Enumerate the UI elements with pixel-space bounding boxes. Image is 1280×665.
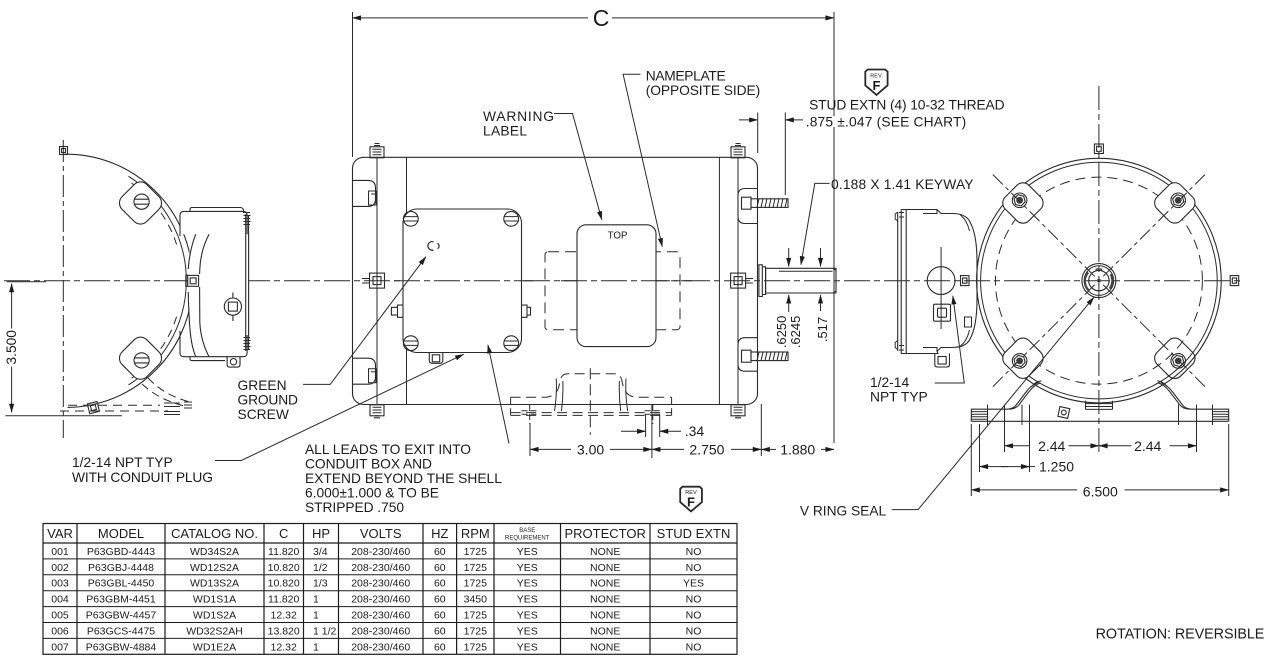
right view left rim clip [961, 276, 970, 286]
leader warning label [554, 114, 602, 220]
svg-text:WD12S2A: WD12S2A [190, 562, 239, 574]
conduit box screw BR [504, 336, 519, 351]
dim C right extension [833, 12, 835, 443]
svg-text:WITH CONDUIT PLUG: WITH CONDUIT PLUG [72, 470, 213, 485]
svg-text:NONE: NONE [590, 641, 620, 653]
svg-text:.875 ±.047 (SEE CHART): .875 ±.047 (SEE CHART) [806, 115, 967, 130]
left view bottom tab [227, 357, 240, 367]
left view top clip square [60, 147, 68, 155]
right view base slot ticks [988, 405, 1213, 426]
left view conduit box top lip [190, 208, 244, 214]
svg-text:ROTATION: REVERSIBLE: ROTATION: REVERSIBLE [1096, 627, 1265, 643]
right view base left serrations [971, 412, 987, 420]
bottom-left through bolt [370, 405, 384, 416]
svg-text:NO: NO [686, 641, 702, 653]
svg-text:ALL LEADS TO EXIT INTO: ALL LEADS TO EXIT INTO [305, 442, 471, 457]
svg-text:208-230/460: 208-230/460 [351, 641, 410, 653]
dim .34 extensions [646, 414, 660, 437]
left view dashed base lines [68, 404, 160, 406]
conduit plug symbol [428, 242, 439, 251]
svg-text:2.750: 2.750 [689, 442, 724, 458]
dim 6.500 [971, 489, 1077, 491]
svg-text:P63GCS-4475: P63GCS-4475 [87, 625, 155, 637]
svg-text:6.500: 6.500 [1083, 484, 1118, 500]
svg-text:MODEL: MODEL [98, 526, 144, 541]
dim .34 arrows [621, 430, 646, 432]
svg-text:1/3: 1/3 [313, 578, 328, 590]
svg-text:C: C [593, 5, 610, 31]
right view UL hex bolt [1012, 193, 1027, 208]
svg-text:1: 1 [313, 594, 319, 606]
base bottom dashed lines [511, 413, 672, 416]
svg-text:YES: YES [517, 625, 538, 637]
svg-text:1.880: 1.880 [780, 442, 815, 458]
svg-text:F: F [873, 78, 881, 93]
dim .875 extensions [758, 113, 786, 196]
svg-text:1/2-14: 1/2-14 [870, 375, 909, 390]
svg-text:1 1/2: 1 1/2 [313, 625, 337, 637]
dim C line [353, 17, 589, 19]
left view hidden arc dashed [132, 183, 177, 244]
right view conduit box cover [898, 210, 907, 354]
left view upper bolt lobe [116, 178, 165, 227]
left view conduit box S-curve upper [188, 234, 196, 269]
left view conduit box S-curve inner lower [200, 287, 209, 357]
right view NPT vertical centerline [940, 247, 942, 329]
svg-text:208-230/460: 208-230/460 [351, 578, 410, 590]
svg-text:NONE: NONE [590, 562, 620, 574]
right view base inner profile [1010, 383, 1041, 409]
left view conduit box bottom lip [190, 357, 225, 361]
svg-text:STRIPPED .750: STRIPPED .750 [305, 500, 404, 515]
right view diagonal centerline TLBR [993, 175, 1205, 387]
table data text [51, 546, 704, 653]
bottom stud threaded [742, 350, 752, 362]
svg-text:NONE: NONE [590, 610, 620, 622]
svg-text:WD32S2AH: WD32S2AH [186, 625, 243, 637]
svg-text:208-230/460: 208-230/460 [351, 562, 410, 574]
right view base center clip [1058, 407, 1070, 419]
right view base center notch [1086, 401, 1113, 410]
nameplate dashed rect [545, 252, 680, 330]
svg-text:WD34S2A: WD34S2A [190, 546, 239, 558]
conduit box screw TR [504, 211, 519, 226]
svg-text:GROUND: GROUND [238, 392, 299, 407]
svg-text:12.32: 12.32 [271, 641, 297, 653]
right view NPT boss circle [927, 267, 955, 295]
left edge clip lower [353, 358, 376, 384]
conduit box bottom tab [429, 353, 443, 364]
svg-text:10.820: 10.820 [268, 562, 300, 574]
svg-text:60: 60 [434, 562, 446, 574]
svg-text:6.000±1.000 & TO BE: 6.000±1.000 & TO BE [305, 485, 439, 500]
svg-text:003: 003 [51, 578, 69, 590]
svg-text:001: 001 [51, 546, 69, 558]
svg-text:1.250: 1.250 [1039, 459, 1074, 475]
svg-text:208-230/460: 208-230/460 [351, 546, 410, 558]
svg-text:NO: NO [686, 546, 702, 558]
left view center square bolt [188, 275, 199, 286]
leader green ground screw [303, 257, 426, 385]
svg-text:YES: YES [683, 578, 704, 590]
right view inner rim circle [981, 162, 1218, 399]
svg-text:NONE: NONE [590, 594, 620, 606]
right view LL bolt pad [999, 335, 1046, 382]
svg-text:LABEL: LABEL [483, 123, 527, 138]
base bolt tick right [645, 405, 662, 424]
svg-text:13.820: 13.820 [268, 625, 300, 637]
base side brackets dashed [511, 397, 672, 415]
right view box side clip right [965, 317, 972, 327]
left view lower lobe screw [134, 353, 149, 368]
left view conduit box S-curve lower [188, 292, 196, 357]
svg-text:1725: 1725 [464, 562, 488, 574]
left view vertical centerline [62, 140, 64, 438]
svg-text:NAMEPLATE: NAMEPLATE [646, 69, 726, 84]
svg-text:P63GBW-4457: P63GBW-4457 [86, 610, 157, 622]
right view LR bolt pad [1151, 335, 1198, 382]
left view conduit box right ribs top [244, 213, 251, 225]
conduit box front [403, 209, 522, 353]
right view seal ring arcs [1085, 273, 1112, 291]
dim 2.750 [652, 448, 684, 450]
mid-left bolt [362, 279, 369, 284]
left view conduit box right ribs bottom [244, 338, 251, 350]
svg-text:0.188 X 1.41 KEYWAY: 0.188 X 1.41 KEYWAY [831, 177, 974, 192]
left view conduit box top block [180, 211, 247, 236]
svg-text:NO: NO [686, 594, 702, 606]
dim 1.880 [761, 448, 776, 450]
right view hub outer circle [1082, 264, 1116, 298]
dim row extensions [530, 404, 761, 458]
svg-text:005: 005 [51, 610, 69, 622]
base hump dashed [511, 374, 672, 397]
v-ring seal flange [759, 265, 766, 297]
dim .517 arrows [820, 248, 822, 266]
right edge clip lower [738, 338, 758, 372]
dim 1.250 [980, 466, 1009, 468]
right view dim extensions [971, 405, 1228, 497]
right view keyway [1096, 269, 1101, 271]
svg-text:HZ: HZ [431, 526, 448, 541]
keyway leader [801, 183, 830, 264]
left view upper lobe screw [134, 194, 149, 209]
svg-text:YES: YES [517, 546, 538, 558]
base vertical centerline [589, 368, 591, 434]
svg-text:NONE: NONE [590, 625, 620, 637]
svg-text:GREEN: GREEN [238, 378, 287, 393]
conduit box screw TL [403, 211, 418, 226]
left view bottom clip square [87, 402, 99, 414]
right edge clip upper [738, 189, 758, 224]
svg-text:2.44: 2.44 [1134, 438, 1161, 454]
dimension 3.500 [11, 284, 13, 329]
svg-text:1: 1 [313, 610, 319, 622]
svg-text:STUD EXTN: STUD EXTN [657, 526, 731, 541]
svg-text:NPT TYP: NPT TYP [870, 389, 928, 404]
shaft cylinder [766, 268, 836, 293]
leader npt typ [935, 296, 965, 383]
svg-text:3/4: 3/4 [313, 546, 328, 558]
svg-text:YES: YES [517, 641, 538, 653]
svg-text:1725: 1725 [464, 578, 488, 590]
top-right through bolt [735, 144, 741, 146]
right view vertical centerline [1098, 86, 1100, 452]
left view base end marks [164, 402, 192, 415]
svg-text:3.500: 3.500 [4, 330, 19, 365]
bottom-right through bolt [731, 405, 745, 416]
svg-text:NO: NO [686, 562, 702, 574]
table header text [47, 526, 730, 542]
conduit box right tab [522, 305, 531, 317]
right view hub middle circle [1084, 266, 1114, 296]
svg-text:60: 60 [434, 610, 446, 622]
base foot leg curves left [555, 379, 563, 412]
svg-text:EXTEND BEYOND THE SHELL: EXTEND BEYOND THE SHELL [305, 471, 502, 486]
shaft chamfer [833, 268, 836, 293]
left view conduit box bottom block [180, 331, 247, 357]
svg-text:REQUIREMENT: REQUIREMENT [505, 535, 550, 541]
svg-text:12.32: 12.32 [271, 610, 297, 622]
svg-text:NONE: NONE [590, 546, 620, 558]
right view right rim clip [1230, 276, 1239, 286]
svg-text:2.44: 2.44 [1038, 438, 1065, 454]
svg-text:C: C [279, 526, 288, 541]
dim 2.44 right [1099, 445, 1132, 447]
svg-text:WD13S2A: WD13S2A [190, 578, 239, 590]
body seam lines [377, 157, 738, 404]
top-left through bolt [374, 144, 380, 146]
left view conduit box white fill [180, 211, 249, 356]
right view conduit box cover clips [895, 212, 898, 350]
svg-text:NO: NO [686, 610, 702, 622]
svg-text:V RING SEAL: V RING SEAL [800, 504, 887, 519]
right view shaft circle [1089, 270, 1109, 290]
dim .6250 arrows [788, 248, 790, 266]
leader nameplate [623, 74, 662, 247]
right view UR bolt pad [1151, 179, 1198, 226]
right view top rim clip [1094, 144, 1103, 154]
svg-text:007: 007 [51, 641, 69, 653]
dim 2.44 left [1005, 445, 1031, 447]
svg-text:WARNING: WARNING [483, 109, 554, 124]
svg-text:3.00: 3.00 [577, 442, 604, 458]
shaft keyway line [779, 270, 833, 272]
svg-text:YES: YES [517, 578, 538, 590]
svg-text:YES: YES [517, 610, 538, 622]
centerline over conduit box [394, 280, 533, 282]
dim 3.00 [530, 448, 571, 450]
leader v ring seal [892, 297, 1094, 509]
svg-text:60: 60 [434, 625, 446, 637]
svg-text:1725: 1725 [464, 610, 488, 622]
svg-text:1725: 1725 [464, 546, 488, 558]
svg-text:SCREW: SCREW [238, 407, 289, 422]
svg-text:1: 1 [313, 641, 319, 653]
leader conduit plug [215, 354, 464, 460]
svg-text:002: 002 [51, 562, 69, 574]
right view diagonal centerline BLTR [993, 175, 1205, 387]
svg-text:YES: YES [517, 562, 538, 574]
svg-text:60: 60 [434, 546, 446, 558]
svg-text:1/2: 1/2 [313, 562, 328, 574]
svg-text:004: 004 [51, 594, 69, 606]
left view shell inner arc [129, 176, 187, 385]
rev flag bottom [680, 487, 702, 512]
motor body outline [353, 157, 758, 404]
base foot leg curves right [619, 379, 627, 412]
svg-text:208-230/460: 208-230/460 [351, 594, 410, 606]
left view hex bolt [224, 298, 241, 315]
leader all leads [488, 345, 509, 444]
svg-text:VAR: VAR [47, 526, 73, 541]
left edge clip upper [353, 180, 376, 206]
svg-text:NO: NO [686, 625, 702, 637]
svg-text:10.820: 10.820 [268, 578, 300, 590]
svg-text:BASE: BASE [519, 528, 535, 534]
svg-text:1725: 1725 [464, 641, 488, 653]
right view UL bolt pad [999, 179, 1046, 226]
svg-text:.517: .517 [815, 317, 830, 342]
svg-text:3450: 3450 [464, 594, 488, 606]
right view dashed bolt circle [995, 177, 1202, 384]
svg-text:NONE: NONE [590, 578, 620, 590]
right view base outer profile [971, 383, 1038, 422]
conduit box left tab [391, 305, 403, 317]
svg-text:P63GBL-4450: P63GBL-4450 [88, 578, 155, 590]
svg-text:WD1S1A: WD1S1A [193, 594, 236, 606]
right view LL hex bolt [1012, 354, 1027, 369]
right view LR hex bolt [1171, 354, 1186, 369]
left view conduit box S-curve inner upper [200, 234, 209, 274]
dim .875 arrows [739, 119, 758, 121]
svg-text:.6245: .6245 [788, 316, 803, 349]
svg-text:208-230/460: 208-230/460 [351, 610, 410, 622]
base bolt tick left [522, 405, 539, 424]
left view motor shell arc [65, 154, 193, 407]
left view conduit box right column [246, 214, 249, 351]
svg-text:P63GBJ-4448: P63GBJ-4448 [88, 562, 154, 574]
data table grid [43, 524, 737, 655]
right view conduit box inner lines [923, 210, 937, 352]
svg-text:RPM: RPM [461, 526, 490, 541]
rev flag top [865, 70, 887, 95]
svg-text:YES: YES [517, 594, 538, 606]
svg-text:P63GBW-4884: P63GBW-4884 [86, 641, 157, 653]
svg-text:.34: .34 [685, 423, 705, 439]
svg-text:P63GBM-4451: P63GBM-4451 [86, 594, 156, 606]
svg-text:CATALOG NO.: CATALOG NO. [171, 526, 258, 541]
svg-text:VOLTS: VOLTS [360, 526, 402, 541]
right view outer circle [977, 158, 1222, 403]
svg-text:TOP: TOP [608, 230, 628, 241]
nameplate TOP [577, 225, 656, 347]
mid-right bolt [731, 273, 746, 288]
right view UR hex bolt [1171, 193, 1186, 208]
main horizontal centerline [4, 280, 1243, 282]
svg-text:1725: 1725 [464, 625, 488, 637]
centerline over nameplate [561, 280, 692, 282]
svg-text:(OPPOSITE SIDE): (OPPOSITE SIDE) [646, 83, 761, 98]
svg-text:P63GBD-4443: P63GBD-4443 [87, 546, 155, 558]
svg-text:208-230/460: 208-230/460 [351, 625, 410, 637]
svg-text:006: 006 [51, 625, 69, 637]
svg-text:60: 60 [434, 641, 446, 653]
svg-text:1/2-14 NPT TYP: 1/2-14 NPT TYP [72, 455, 173, 470]
svg-text:WD1S2A: WD1S2A [193, 610, 236, 622]
svg-text:11.820: 11.820 [268, 594, 299, 606]
right view conduit box body [901, 210, 977, 354]
top stud threaded [742, 197, 752, 209]
svg-text:HP: HP [312, 526, 330, 541]
right view square lug [934, 304, 951, 321]
left view apex clip square [186, 275, 197, 286]
svg-text:STUD EXTN (4) 10-32 THREAD: STUD EXTN (4) 10-32 THREAD [809, 98, 1005, 113]
left view lower bolt lobe [116, 333, 165, 382]
right view base bottom edge [971, 420, 1228, 422]
conduit box screw BL [403, 336, 418, 351]
dim C left extension [352, 12, 354, 157]
right view base shoulder bumps [1032, 381, 1168, 387]
svg-text:CONDUIT BOX AND: CONDUIT BOX AND [305, 457, 432, 472]
right view bottom tab [935, 354, 950, 368]
svg-text:WD1E2A: WD1E2A [193, 641, 236, 653]
svg-text:60: 60 [434, 594, 446, 606]
svg-text:11.820: 11.820 [268, 546, 299, 558]
svg-text:60: 60 [434, 578, 446, 590]
right view base right serrations [1213, 412, 1229, 420]
svg-text:PROTECTOR: PROTECTOR [565, 526, 646, 541]
svg-text:F: F [687, 495, 695, 510]
